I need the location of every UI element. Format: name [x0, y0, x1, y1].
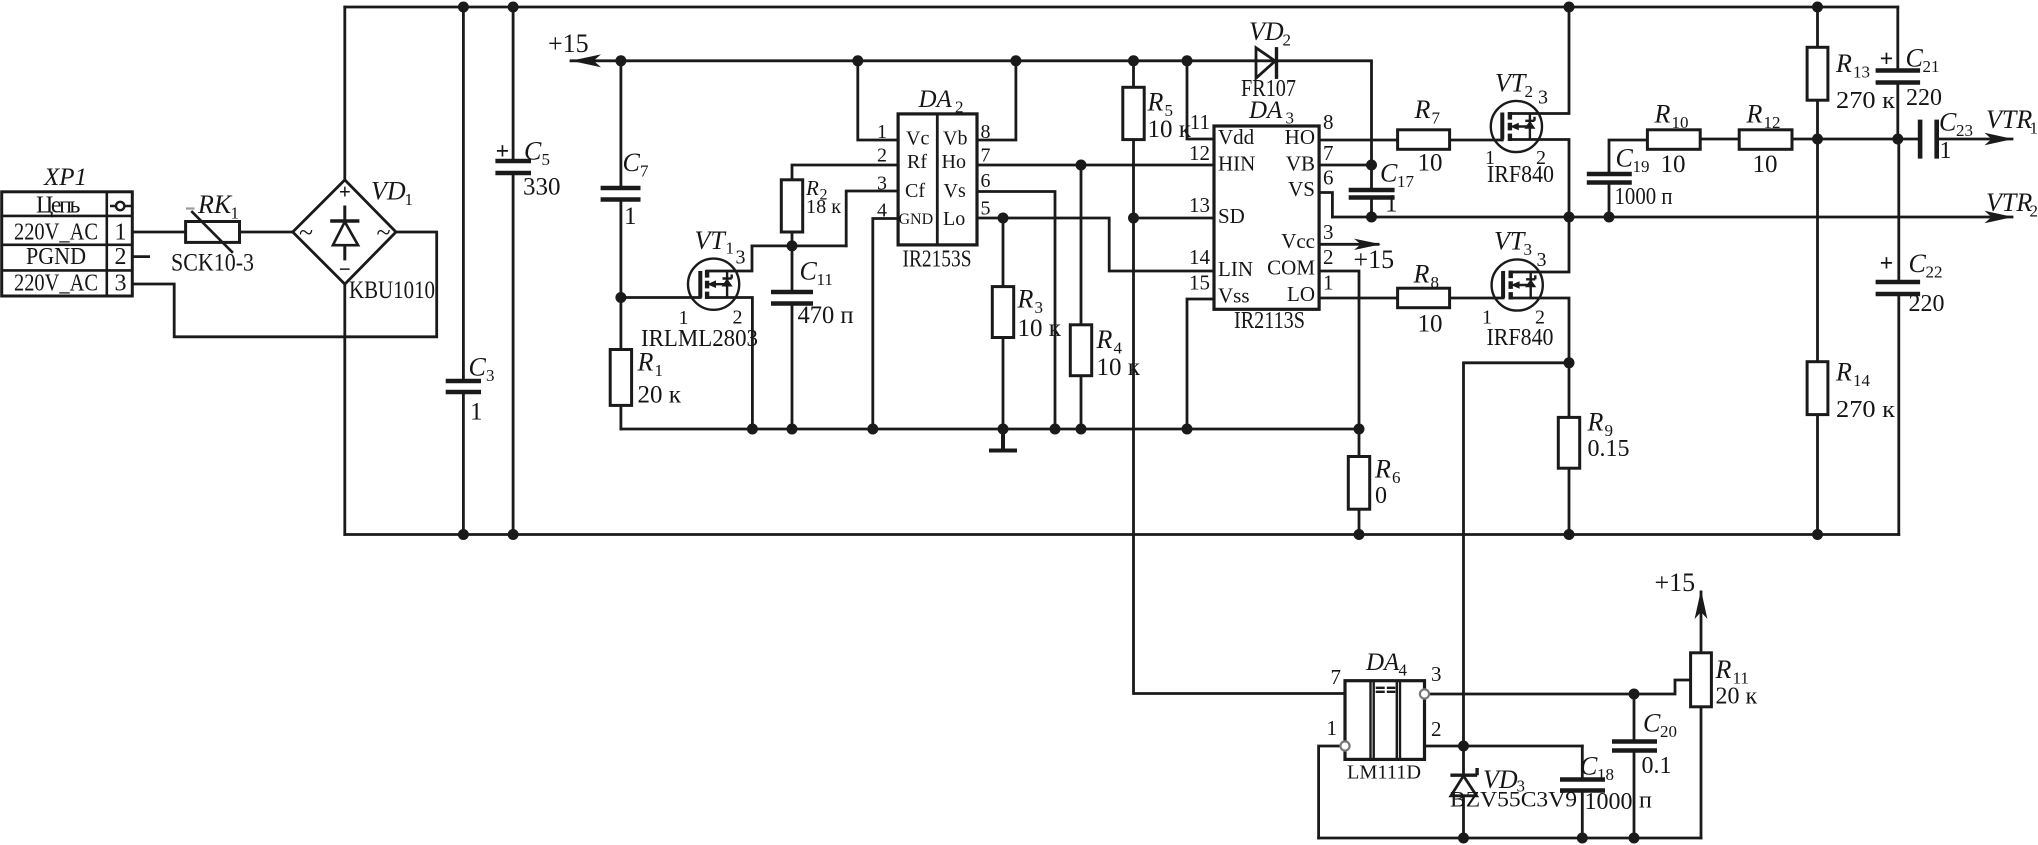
svg-text:R: R — [1414, 95, 1431, 124]
zener diode VD3 — [1450, 768, 1477, 796]
wire VT1 drain lead — [707, 246, 752, 271]
svg-text:Vdd: Vdd — [1218, 125, 1255, 149]
svg-text:1: 1 — [2030, 119, 2038, 138]
svg-text:8: 8 — [981, 121, 991, 143]
svg-text:VD: VD — [371, 177, 406, 206]
svg-text:220V_AC: 220V_AC — [14, 220, 98, 246]
svg-text:GND: GND — [899, 211, 934, 228]
wire R4 branch — [1080, 165, 1083, 429]
svg-text:11: 11 — [1190, 110, 1210, 134]
svg-text:COM: COM — [1267, 256, 1315, 280]
resistor R14 — [1807, 362, 1828, 415]
svg-text:7: 7 — [640, 162, 649, 181]
contact symbol in XP1 header — [110, 202, 132, 210]
svg-text:R: R — [1654, 100, 1671, 129]
wire VT1 source lead — [707, 298, 752, 430]
svg-text:20 к: 20 к — [638, 382, 682, 409]
svg-text:6: 6 — [1323, 166, 1334, 190]
wire DA3 VB stub — [1319, 164, 1371, 167]
arrow +15 Vcc right — [1354, 239, 1381, 250]
resistor R3 — [992, 287, 1013, 338]
wire R2 leads — [792, 165, 898, 246]
svg-text:470 п: 470 п — [798, 302, 854, 329]
svg-text:DA: DA — [918, 86, 953, 113]
svg-text:IRF840: IRF840 — [1487, 325, 1554, 351]
transistor VT1 — [688, 259, 739, 310]
wire current sense to DA4 — [1464, 363, 1570, 746]
svg-text:2: 2 — [2030, 202, 2038, 221]
svg-text:3: 3 — [115, 271, 127, 297]
svg-text:7: 7 — [1323, 141, 1334, 165]
svg-text:2: 2 — [877, 145, 887, 167]
svg-text:18 к: 18 к — [806, 196, 841, 218]
svg-text:1: 1 — [624, 203, 637, 230]
svg-text:R: R — [1746, 100, 1763, 129]
wire DA3 HO to R7 — [1319, 139, 1398, 142]
transistor VT2 — [1491, 101, 1542, 152]
svg-text:17: 17 — [1397, 172, 1415, 191]
svg-text:~: ~ — [376, 218, 390, 247]
svg-text:22: 22 — [1926, 263, 1943, 282]
svg-text:+: + — [1880, 251, 1894, 277]
svg-text:PGND: PGND — [26, 244, 86, 270]
IC DA2 — [898, 114, 977, 245]
wire SD lead — [1134, 217, 1215, 220]
svg-text:3: 3 — [877, 173, 887, 195]
svg-text:13: 13 — [1853, 63, 1870, 82]
capacitor C17 — [1349, 190, 1395, 198]
svg-text:SD: SD — [1218, 204, 1245, 228]
wire VT3 source lead — [1511, 298, 1569, 363]
wire bottom bus — [345, 533, 1899, 536]
capacitor C21 (polarized) — [1876, 71, 1921, 83]
svg-text:Vss: Vss — [1218, 284, 1250, 308]
svg-text:13: 13 — [1189, 193, 1210, 217]
wire DA2 Lo to DA3 LIN — [977, 218, 1214, 271]
wire C17 leads — [1370, 165, 1373, 217]
svg-text:3: 3 — [1537, 249, 1547, 271]
resistor R10 — [1647, 130, 1700, 150]
IC DA3 — [1214, 126, 1319, 309]
svg-text:18: 18 — [1597, 765, 1614, 784]
resistor R7 — [1398, 130, 1450, 150]
svg-text:C: C — [1380, 159, 1398, 188]
connector XP1 table — [2, 192, 133, 296]
svg-text:LM111D: LM111D — [1347, 762, 1421, 784]
wire R7 to VT2 gate — [1450, 139, 1503, 142]
wire RK1 to bridge — [240, 231, 293, 234]
svg-text:HIN: HIN — [1218, 152, 1255, 176]
svg-text:0: 0 — [1375, 483, 1387, 509]
svg-text:C: C — [800, 257, 818, 286]
svg-text:R: R — [637, 348, 654, 377]
svg-text:14: 14 — [1189, 245, 1211, 269]
svg-text:IRLML2803: IRLML2803 — [641, 326, 758, 352]
svg-text:−: − — [339, 257, 351, 281]
svg-text:21: 21 — [1923, 57, 1940, 76]
capacitor C20 — [1612, 742, 1657, 751]
svg-text:Rf: Rf — [907, 151, 927, 173]
svg-text:2: 2 — [1283, 31, 1292, 50]
svg-text:R: R — [1715, 655, 1732, 684]
wire DA2 pin1 riser — [858, 61, 898, 140]
svg-text:+: + — [339, 180, 351, 204]
svg-text:14: 14 — [1853, 371, 1871, 390]
wire C20 leads — [1633, 694, 1636, 838]
svg-text:1: 1 — [1323, 271, 1334, 295]
svg-text:4: 4 — [1399, 661, 1408, 680]
wire node R2-C11 junction row — [752, 244, 846, 247]
capacitor C23 — [1920, 120, 1937, 159]
arrow VTR2 — [1985, 211, 2014, 223]
svg-text:8: 8 — [1431, 273, 1440, 292]
svg-text:+15: +15 — [548, 29, 589, 58]
svg-text:C: C — [469, 353, 487, 382]
wire C11 leads — [791, 246, 794, 429]
svg-text:10 к: 10 к — [1018, 315, 1062, 342]
wire C19 leads — [1609, 140, 1647, 217]
svg-text:XP1: XP1 — [43, 164, 87, 191]
svg-text:5: 5 — [981, 198, 991, 220]
svg-text:+: + — [496, 139, 510, 165]
resistor R6 — [1348, 457, 1369, 510]
svg-text:VT: VT — [695, 226, 727, 255]
svg-text:R: R — [1374, 455, 1391, 484]
wire C7 branch — [620, 61, 623, 298]
svg-text:1: 1 — [877, 121, 887, 143]
wire top bus — [345, 6, 1898, 9]
capacitor C3 — [446, 381, 481, 392]
wire C3 branch — [462, 7, 465, 535]
ground (earth) symbol — [989, 429, 1017, 451]
svg-text:1: 1 — [1385, 191, 1398, 218]
wire DA3 COM to R6 — [1319, 271, 1359, 535]
wire DA2 GND lead — [873, 219, 898, 430]
wire R8 to VT3 gate — [1450, 297, 1504, 300]
wire R11 top lead to +15 — [1700, 592, 1703, 653]
svg-text:IR2153S: IR2153S — [903, 247, 972, 273]
labels DA3 right pin names — [1267, 125, 1315, 306]
svg-text:220V_AC: 220V_AC — [14, 271, 98, 297]
arrow VTR1 — [1985, 133, 2014, 145]
svg-text:220: 220 — [1906, 85, 1942, 111]
wire DA4 bottom rail — [1319, 837, 1701, 840]
svg-text:7: 7 — [1432, 109, 1441, 128]
wire VT3 drain lead — [1511, 217, 1569, 272]
svg-text:1000: 1000 — [1585, 789, 1633, 815]
svg-text:10: 10 — [1753, 151, 1778, 178]
wire control ground bus — [621, 428, 1359, 431]
svg-text:20: 20 — [1660, 722, 1677, 741]
IC DA4 optocoupler body — [1340, 681, 1429, 760]
arrow +15 left — [571, 54, 601, 67]
svg-text:R: R — [1835, 358, 1852, 387]
labels DA2 left pin names — [899, 128, 934, 229]
svg-text:1: 1 — [470, 399, 483, 426]
svg-text:C: C — [1580, 752, 1598, 781]
svg-text:RK: RK — [197, 190, 233, 219]
wire R3 branch — [1002, 218, 1005, 429]
svg-text:1: 1 — [405, 190, 414, 209]
svg-text:2: 2 — [1525, 82, 1534, 101]
svg-text:1: 1 — [231, 204, 240, 223]
wire VT2 drain lead — [1510, 7, 1569, 114]
capacitor C18 — [1560, 780, 1605, 791]
labels DA2 right pin names — [942, 128, 968, 231]
svg-text:1: 1 — [726, 239, 735, 258]
wire VTR2 line — [1332, 216, 2012, 219]
wire +15 rail — [571, 61, 1372, 165]
svg-text:Cf: Cf — [905, 180, 925, 202]
resistor R4 — [1070, 325, 1091, 376]
svg-text:5: 5 — [542, 150, 551, 169]
svg-text:HO: HO — [1285, 125, 1315, 149]
svg-text:Vs: Vs — [944, 180, 966, 202]
wire C18 leads — [1581, 746, 1584, 838]
svg-text:4: 4 — [877, 200, 887, 222]
svg-text:11: 11 — [817, 270, 833, 289]
wire DA3 LO to R8 — [1319, 297, 1398, 300]
capacitor C22 (polarized) — [1876, 282, 1921, 294]
svg-text:+15: +15 — [1655, 568, 1696, 597]
labels DA3 left pin names — [1218, 125, 1255, 308]
wire bridge bottom lead — [343, 284, 346, 534]
resistor R8 — [1398, 288, 1450, 308]
wire R9 branch — [1568, 363, 1571, 535]
svg-text:23: 23 — [1956, 121, 1973, 140]
wire DA2 Vs to ground — [977, 192, 1055, 430]
svg-text:C: C — [1939, 108, 1957, 137]
svg-text:6: 6 — [1392, 468, 1401, 487]
svg-text:C: C — [623, 148, 641, 177]
wire R12 to C23 — [1792, 138, 1920, 141]
wire R5 / SD / DA4 pin7 branch — [1134, 61, 1346, 694]
svg-text:330: 330 — [523, 174, 561, 201]
wire C22 leads — [1897, 139, 1900, 535]
svg-text:п: п — [1639, 788, 1652, 814]
resistor R11 (trimmer) — [1691, 653, 1712, 707]
wire DA2 Cf lead — [846, 191, 898, 246]
svg-text:C: C — [1909, 249, 1927, 278]
svg-text:LO: LO — [1287, 282, 1315, 306]
svg-text:3: 3 — [1323, 220, 1334, 244]
labels DA2 left pin numbers — [877, 121, 887, 222]
svg-text:C: C — [524, 137, 542, 166]
svg-text:1000 п: 1000 п — [1615, 184, 1673, 210]
svg-text:R: R — [1587, 408, 1604, 437]
wire DA3 Vss drop — [1187, 299, 1214, 429]
svg-text:10: 10 — [1418, 311, 1443, 338]
resistor R1 — [610, 350, 631, 406]
transistor VT3 — [1492, 259, 1543, 310]
svg-text:2: 2 — [1323, 245, 1334, 269]
wire DA2 pin8 riser — [977, 61, 1016, 140]
svg-text:3: 3 — [736, 247, 746, 269]
wire DA3 VS step — [1319, 193, 1332, 218]
arrow +15 R11 up — [1695, 590, 1708, 619]
wire DA4 pin3 to R11 tap — [1429, 680, 1690, 694]
svg-text:1: 1 — [1940, 138, 1952, 164]
resistor R2 — [781, 180, 802, 232]
svg-text:10: 10 — [1418, 150, 1443, 177]
svg-text:DA: DA — [1248, 97, 1283, 124]
svg-text:IRF840: IRF840 — [1487, 162, 1554, 188]
wire R13-R14 vertical — [1816, 139, 1819, 535]
svg-text:12: 12 — [1189, 141, 1210, 165]
svg-text:10: 10 — [1672, 113, 1689, 132]
svg-text:10: 10 — [1661, 151, 1686, 178]
svg-text:1: 1 — [115, 220, 127, 246]
labels DA3 right pin numbers — [1323, 110, 1334, 295]
svg-text:6: 6 — [981, 170, 991, 192]
svg-text:R: R — [1017, 285, 1034, 314]
svg-text:R: R — [1413, 260, 1430, 289]
svg-text:C: C — [1616, 144, 1634, 173]
capacitor C19 — [1587, 174, 1632, 183]
svg-text:1: 1 — [655, 361, 664, 380]
svg-text:2: 2 — [1431, 717, 1442, 741]
wire R13 leads — [1816, 7, 1819, 139]
svg-text:10 к: 10 к — [1097, 354, 1141, 381]
resistor R13 — [1807, 47, 1828, 100]
labels DA2 right pin numbers — [981, 121, 991, 220]
wire C21 leads — [1896, 7, 1899, 139]
svg-text:270 к: 270 к — [1836, 88, 1895, 114]
wire bridge top lead — [343, 7, 346, 180]
svg-text:2: 2 — [115, 244, 127, 270]
wire XP1 pin3 loop to bridge right — [134, 232, 437, 337]
svg-text:Vcc: Vcc — [1281, 229, 1315, 253]
resistor R5 — [1123, 87, 1144, 139]
svg-text:+: + — [1880, 47, 1894, 73]
svg-text:Vb: Vb — [943, 128, 967, 150]
wire DA3 Vcc stub — [1319, 243, 1378, 246]
bridge rectifier VD1 — [293, 180, 396, 284]
svg-text:Lo: Lo — [943, 208, 965, 230]
svg-text:LIN: LIN — [1218, 257, 1253, 281]
svg-text:3: 3 — [1431, 662, 1442, 686]
svg-text:SCK10-3: SCK10-3 — [171, 250, 254, 277]
wire DA3 Vdd riser — [1187, 61, 1214, 139]
resistor R9 — [1558, 417, 1579, 468]
wire C5 branch — [512, 7, 515, 535]
svg-text:1: 1 — [1327, 716, 1338, 740]
svg-text:220: 220 — [1909, 291, 1945, 317]
svg-text:0.15: 0.15 — [1588, 436, 1630, 462]
svg-text:R: R — [1096, 325, 1113, 354]
resistor R12 — [1739, 130, 1792, 150]
wire VT1 gate lead — [621, 296, 700, 299]
wire R11 bottom lead — [1700, 707, 1703, 838]
svg-text:20 к: 20 к — [1716, 684, 1758, 710]
wire XP1 pin2 stub — [134, 255, 149, 258]
svg-text:VTR: VTR — [1986, 105, 2032, 134]
svg-text:R: R — [1835, 49, 1852, 78]
svg-text:3: 3 — [486, 366, 495, 385]
svg-text:VS: VS — [1288, 177, 1315, 201]
svg-text:VB: VB — [1286, 152, 1315, 176]
capacitor C11 — [771, 292, 813, 304]
wire VD3 leads — [1462, 746, 1465, 838]
svg-text:VD: VD — [1249, 17, 1284, 46]
thermistor RK1 — [186, 209, 240, 253]
svg-text:+15: +15 — [1354, 245, 1395, 274]
svg-text:7: 7 — [1331, 665, 1342, 689]
svg-text:VTR: VTR — [1986, 188, 2032, 217]
svg-text:~: ~ — [299, 218, 313, 247]
wire R10 to R12 — [1700, 138, 1739, 141]
svg-text:KBU1010: KBU1010 — [349, 277, 435, 304]
svg-text:3: 3 — [1524, 240, 1533, 259]
wire DA4 pin1 to bottom rail — [1319, 746, 1341, 838]
svg-text:Ho: Ho — [942, 151, 966, 173]
svg-text:IR2113S: IR2113S — [1234, 308, 1305, 334]
svg-text:7: 7 — [981, 145, 991, 167]
capacitor C7 — [601, 188, 641, 200]
svg-text:12: 12 — [1764, 113, 1781, 132]
diode VD2 — [1256, 47, 1277, 79]
svg-text:3: 3 — [1538, 87, 1548, 109]
capacitor C5 (polarized) — [495, 161, 531, 173]
svg-text:270 к: 270 к — [1836, 397, 1895, 423]
svg-text:Цепь: Цепь — [36, 193, 81, 219]
svg-text:2: 2 — [955, 98, 964, 117]
wire VT2 source lead — [1510, 140, 1569, 218]
svg-text:C: C — [1906, 44, 1924, 73]
svg-text:BZV55C3V9: BZV55C3V9 — [1450, 787, 1577, 812]
svg-text:0.1: 0.1 — [1642, 753, 1672, 779]
svg-text:DA: DA — [1365, 649, 1400, 676]
svg-text:19: 19 — [1633, 157, 1650, 176]
svg-text:R: R — [1147, 88, 1164, 117]
wire VTR1 line — [1937, 138, 2012, 141]
svg-text:15: 15 — [1189, 271, 1210, 295]
wire DA2 Ho to DA3 HIN — [977, 164, 1214, 167]
svg-text:Vc: Vc — [906, 128, 929, 150]
svg-text:10 к: 10 к — [1148, 116, 1192, 143]
svg-text:VT: VT — [1494, 227, 1526, 256]
wire R1 branch — [620, 298, 623, 430]
svg-text:C: C — [1643, 709, 1661, 738]
wire XP1 pin1 to RK1 — [134, 231, 186, 234]
wire DA4 pin2 to C18 — [1425, 745, 1583, 748]
svg-text:VT: VT — [1495, 69, 1527, 98]
labels DA3 left pin numbers — [1189, 110, 1211, 295]
svg-text:8: 8 — [1323, 110, 1334, 134]
